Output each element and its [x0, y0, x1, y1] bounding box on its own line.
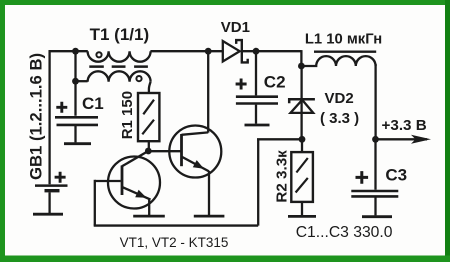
wire top to L1 corner — [300, 50, 302, 66]
wire VT2 emitter down — [208, 171, 210, 215]
R2 wire down — [301, 202, 303, 215]
ground VT2 emitter — [194, 215, 225, 218]
wire VT2 collector up — [207, 51, 209, 132]
svg-text:VD1: VD1 — [221, 19, 250, 36]
svg-text:C2: C2 — [264, 73, 286, 92]
ground R2 — [288, 215, 316, 218]
resistor R2 — [273, 139, 316, 216]
C3 wire down — [374, 139, 376, 189]
zener diode VD2 — [289, 66, 359, 139]
svg-text:R1 150: R1 150 — [119, 91, 136, 139]
C3 plus sign — [356, 171, 369, 184]
output arrow +3.3V — [376, 117, 432, 144]
ground VT1 emitter — [133, 215, 165, 218]
VT1 emitter — [122, 187, 151, 200]
VD1 cathode bar with schottky hooks — [236, 40, 248, 62]
VT1 collector — [122, 151, 148, 166]
ground C1 — [64, 142, 91, 145]
C1 plus sign — [56, 102, 67, 113]
C2 plus sign — [236, 79, 247, 90]
ground GB1 — [33, 213, 63, 216]
VD2 wire from node — [300, 66, 302, 139]
C3 bottom plate — [351, 195, 398, 198]
svg-text:GB1 (1.2...1.6 В): GB1 (1.2...1.6 В) — [26, 53, 45, 180]
VD2 cathode bar with tick — [289, 99, 315, 103]
ground C2 — [245, 124, 270, 127]
diode VD1 (Schottky) — [221, 19, 250, 63]
node dot C2 top — [253, 48, 260, 55]
wire VT1 base feedback — [95, 180, 121, 182]
VT2 emitter arrow — [193, 160, 204, 169]
T1 secondary polarity dot — [136, 76, 141, 81]
wire bottom feedback rail — [94, 224, 259, 226]
node dot T1 secondary — [72, 78, 79, 85]
R2 wire from node — [301, 139, 303, 152]
C1 top plate — [55, 116, 98, 119]
svg-text:VT1, VT2 - KT315: VT1, VT2 - KT315 — [120, 235, 229, 250]
wire feedback left vertical — [94, 180, 96, 226]
C1 wire down — [74, 126, 76, 142]
C2 branch wire — [255, 51, 257, 95]
svg-text:T1 (1/1): T1 (1/1) — [90, 25, 150, 44]
wire VT1 emitter down — [148, 199, 150, 215]
wire feedback to VD2 anode — [257, 138, 302, 140]
VT1 emitter arrow — [135, 190, 146, 198]
resistor R1 — [119, 91, 159, 141]
wire top rail — [49, 50, 302, 52]
C2 bottom plate — [236, 102, 278, 105]
svg-text:R2 3.3к: R2 3.3к — [273, 150, 290, 203]
ground C3 — [362, 215, 392, 218]
wire feedback right vertical — [257, 139, 259, 225]
L1 core line — [314, 51, 376, 53]
capacitor C1 — [55, 94, 104, 144]
GB1 plus sign — [55, 172, 66, 183]
transistor VT2 — [169, 126, 221, 178]
svg-text:C1: C1 — [82, 94, 104, 113]
GB1 negative plate — [45, 189, 60, 192]
inductor L1 — [301, 31, 382, 66]
node dot VD2 anode — [299, 136, 306, 143]
battery GB1 — [26, 53, 67, 214]
VT2 emitter — [182, 157, 209, 172]
C1 bottom plate — [57, 124, 99, 127]
VT1 base bar — [121, 166, 124, 196]
VD2 triangle — [291, 100, 314, 113]
T1 core — [89, 65, 148, 68]
wire T1 secondary lead — [76, 80, 88, 82]
VT2 collector — [182, 132, 209, 134]
svg-text:C3: C3 — [385, 165, 407, 184]
svg-text:VD2: VD2 — [325, 90, 354, 107]
C2 top plate — [236, 95, 278, 98]
node dot R1 bottom — [145, 148, 152, 155]
svg-text:C1...C3 330.0: C1...C3 330.0 — [296, 224, 393, 241]
T1 secondary winding (bottom) — [88, 71, 151, 82]
svg-text:( 3.3 ): ( 3.3 ) — [320, 110, 359, 127]
transistor VT1 — [108, 151, 160, 209]
node dot VT2 collector — [205, 48, 212, 55]
wire left vertical (battery branch) — [48, 50, 50, 184]
wire R1 to node — [148, 141, 150, 151]
capacitor C2 — [236, 51, 286, 125]
VT2 base bar — [180, 134, 183, 166]
wire secondary to R1 — [149, 82, 151, 94]
GB1 wire to ground — [48, 192, 50, 213]
svg-text:+3.3 В: +3.3 В — [382, 117, 427, 134]
T1 primary winding (top) — [88, 51, 151, 62]
node dot T1 top left — [72, 48, 79, 55]
wire L1 to output — [374, 64, 376, 139]
wire node to VT2 base — [148, 150, 181, 152]
C3 top plate — [351, 190, 398, 193]
L1 winding — [301, 56, 375, 66]
wire C1 branch vertical — [74, 51, 76, 116]
GB1 positive plate — [35, 184, 68, 187]
node dot output — [372, 136, 379, 143]
transformer T1 — [88, 25, 151, 82]
T1 primary polarity dot — [96, 52, 101, 57]
C3 wire to ground — [374, 198, 376, 216]
svg-text:L1 10 мкГн: L1 10 мкГн — [305, 31, 382, 47]
node dot L1 left — [298, 63, 305, 70]
capacitor C3 — [351, 139, 407, 216]
C2 wire down — [255, 105, 257, 124]
